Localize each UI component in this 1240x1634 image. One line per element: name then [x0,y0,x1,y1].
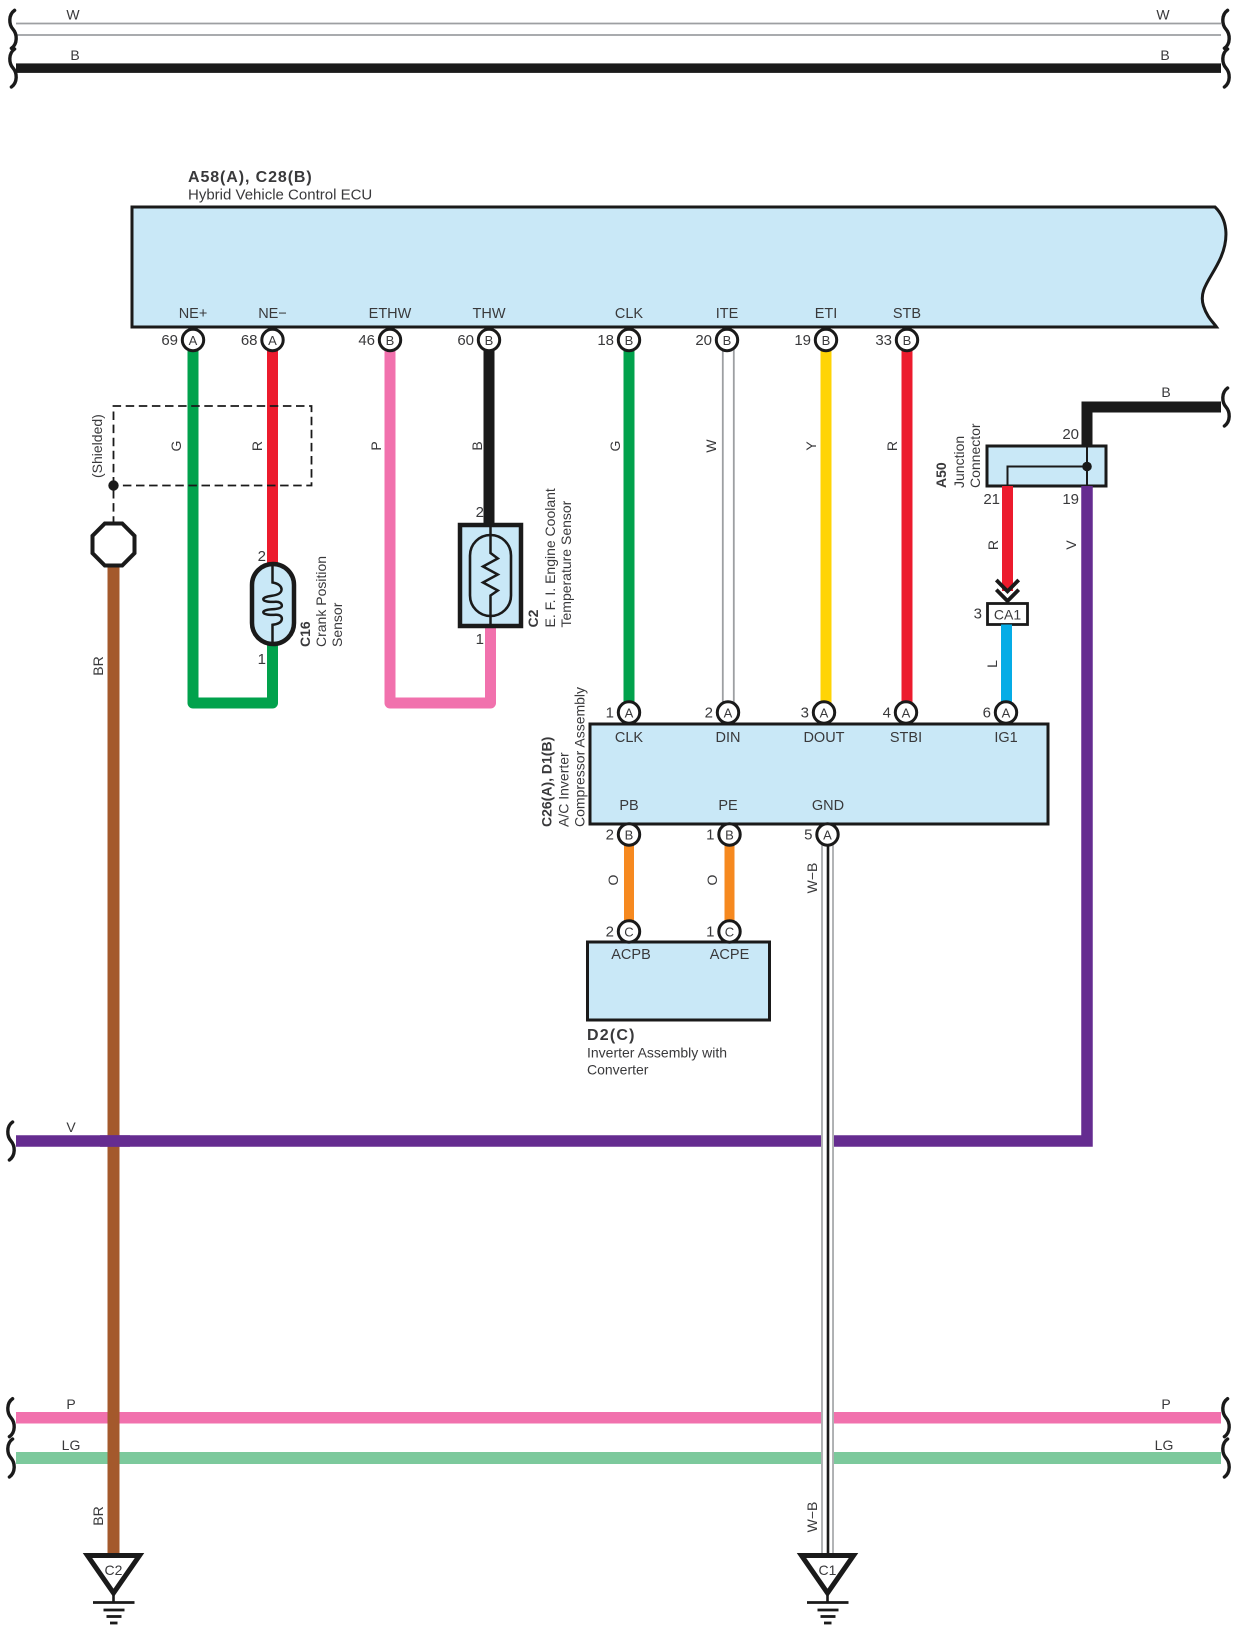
svg-text:W−B: W−B [804,863,820,894]
svg-text:R: R [884,441,900,451]
svg-text:R: R [985,540,1001,550]
svg-text:1: 1 [606,705,614,722]
svg-text:Crank Position: Crank Position [313,556,329,647]
svg-text:W: W [703,439,719,453]
svg-text:18: 18 [597,332,614,349]
svg-text:ITE: ITE [716,306,739,322]
svg-text:1: 1 [258,651,266,668]
svg-text:O: O [704,874,720,885]
svg-text:Compressor Assembly: Compressor Assembly [572,687,588,827]
svg-text:A: A [268,333,277,348]
svg-text:G: G [168,441,184,452]
svg-text:6: 6 [983,705,991,722]
svg-text:O: O [605,874,621,885]
svg-text:B: B [822,333,831,348]
svg-text:60: 60 [457,332,474,349]
svg-text:STBI: STBI [890,730,922,746]
svg-text:C16: C16 [297,621,313,647]
svg-text:C1: C1 [819,1562,837,1578]
svg-text:A: A [724,705,733,720]
svg-text:V: V [1063,540,1079,550]
svg-text:W: W [1156,7,1170,23]
svg-text:Sensor: Sensor [329,602,345,647]
svg-text:A: A [823,827,832,842]
svg-text:A: A [625,705,634,720]
svg-text:B: B [485,333,494,348]
svg-text:B: B [70,47,79,63]
svg-text:CA1: CA1 [994,607,1021,623]
svg-text:NE−: NE− [258,306,287,322]
svg-text:CLK: CLK [615,730,644,746]
svg-text:B: B [386,333,395,348]
svg-text:THW: THW [472,306,505,322]
svg-text:3: 3 [974,606,982,623]
svg-text:A: A [189,333,198,348]
svg-text:19: 19 [794,332,811,349]
svg-text:1: 1 [706,827,714,844]
svg-text:E. F. I. Engine Coolant: E. F. I. Engine Coolant [542,488,558,627]
svg-text:21: 21 [983,491,1000,508]
svg-text:GND: GND [812,798,844,814]
svg-text:33: 33 [875,332,892,349]
svg-text:LG: LG [1155,1437,1174,1453]
svg-text:19: 19 [1062,491,1079,508]
svg-text:(Shielded): (Shielded) [89,414,105,478]
svg-text:20: 20 [1062,426,1079,443]
svg-text:CLK: CLK [615,306,644,322]
svg-text:PE: PE [718,798,738,814]
svg-text:W−B: W−B [804,1502,820,1533]
svg-text:C: C [624,924,633,939]
svg-text:DOUT: DOUT [803,730,844,746]
svg-text:B: B [1161,384,1170,400]
svg-text:A: A [1002,705,1011,720]
svg-text:B: B [625,827,634,842]
svg-text:69: 69 [161,332,178,349]
svg-text:46: 46 [358,332,375,349]
svg-text:5: 5 [804,827,812,844]
svg-text:20: 20 [695,332,712,349]
svg-text:BR: BR [90,656,106,675]
svg-text:ACPE: ACPE [710,947,750,963]
svg-text:B: B [469,441,485,450]
svg-text:C2: C2 [105,1562,123,1578]
svg-text:ETHW: ETHW [369,306,412,322]
svg-text:C2: C2 [525,609,541,627]
svg-text:1: 1 [476,631,484,648]
svg-text:B: B [723,333,732,348]
svg-text:Hybrid Vehicle Control ECU: Hybrid Vehicle Control ECU [188,187,372,204]
svg-text:4: 4 [883,705,891,722]
svg-text:IG1: IG1 [994,730,1017,746]
svg-text:P: P [1161,1396,1170,1412]
svg-text:Converter: Converter [587,1062,649,1078]
svg-text:Y: Y [803,441,819,451]
svg-text:V: V [66,1119,76,1135]
svg-text:Temperature Sensor: Temperature Sensor [558,500,574,627]
svg-text:W: W [66,7,80,23]
svg-text:ETI: ETI [815,306,838,322]
svg-text:A50: A50 [933,462,949,488]
svg-text:L: L [984,660,1000,668]
svg-text:B: B [625,333,634,348]
svg-text:NE+: NE+ [179,306,208,322]
svg-text:1: 1 [706,924,714,941]
svg-text:R: R [249,441,265,451]
svg-text:A: A [820,705,829,720]
svg-text:LG: LG [62,1437,81,1453]
svg-text:2: 2 [476,504,484,521]
svg-text:A: A [902,705,911,720]
svg-text:A58(A), C28(B): A58(A), C28(B) [188,169,313,186]
svg-text:68: 68 [241,332,258,349]
svg-text:P: P [368,441,384,450]
svg-text:2: 2 [606,827,614,844]
svg-text:D2(C): D2(C) [587,1027,636,1044]
svg-text:Inverter Assembly with: Inverter Assembly with [587,1045,727,1061]
svg-text:C26(A), D1(B): C26(A), D1(B) [539,737,555,827]
svg-text:2: 2 [258,548,266,565]
svg-text:STB: STB [893,306,921,322]
svg-text:Junction: Junction [951,436,967,488]
svg-text:2: 2 [705,705,713,722]
svg-text:B: B [725,827,734,842]
svg-text:BR: BR [90,1506,106,1525]
svg-text:2: 2 [606,924,614,941]
svg-text:P: P [66,1396,75,1412]
svg-text:Connector: Connector [967,423,983,488]
svg-text:PB: PB [619,798,638,814]
svg-text:C: C [725,924,734,939]
svg-text:ACPB: ACPB [611,947,651,963]
svg-text:3: 3 [801,705,809,722]
svg-text:G: G [607,441,623,452]
svg-text:B: B [1160,47,1169,63]
svg-text:DIN: DIN [716,730,741,746]
svg-text:A/C Inverter: A/C Inverter [556,752,572,827]
svg-text:B: B [903,333,912,348]
